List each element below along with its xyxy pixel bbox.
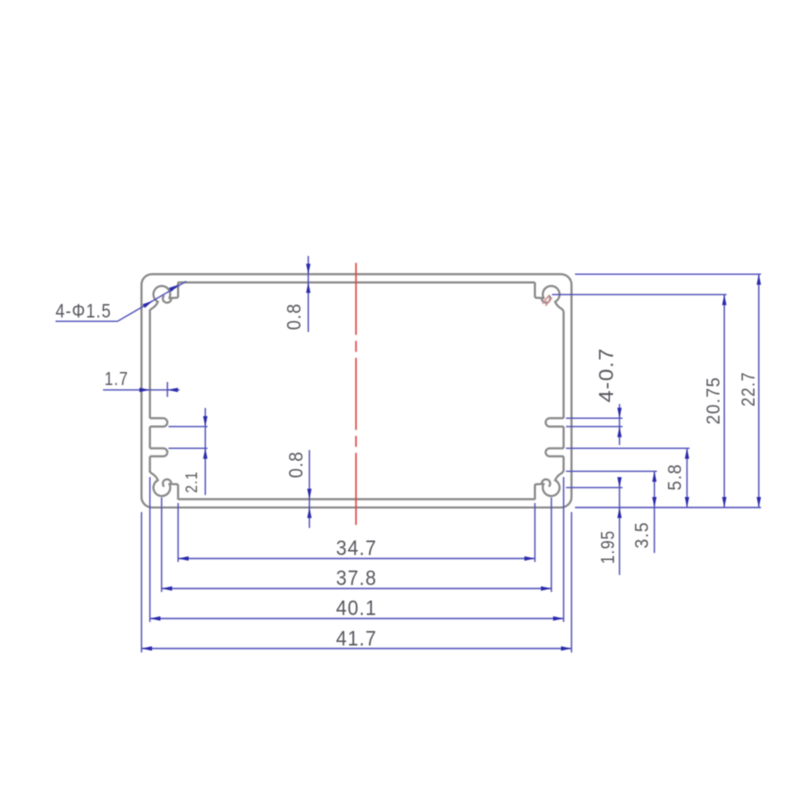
dimension 41.7 label — [336, 628, 377, 651]
svg-text:1.95: 1.95 — [598, 530, 618, 564]
dimension 1.95 label — [598, 530, 618, 564]
dimension 40.1 label — [336, 597, 377, 620]
dimension 4-0.7 extension lines — [566, 418, 623, 426]
dimension 0.8 bottom label — [287, 451, 308, 478]
extension lines below right side — [535, 477, 572, 653]
bottom-left screw boss — [149, 471, 178, 500]
svg-text:0.8: 0.8 — [287, 451, 308, 478]
dimension 5.8 extension line — [566, 447, 690, 449]
svg-text:3.5: 3.5 — [632, 522, 652, 549]
leader 4-Φ1.5 label — [56, 302, 112, 323]
right PCB rail 2 — [546, 448, 564, 456]
left PCB rail 1 — [150, 418, 167, 426]
bottom-right screw boss — [535, 471, 564, 500]
top-left screw boss — [149, 282, 178, 311]
dimension 41.7 arrows — [142, 646, 572, 650]
dimension 5.8 arrows — [685, 448, 689, 507]
svg-text:4-Φ1.5: 4-Φ1.5 — [56, 302, 112, 323]
enclosure outer wall — [142, 274, 572, 507]
dimension 22.7 arrows — [757, 274, 761, 507]
dimension 1.7 line — [103, 389, 180, 391]
leader 4-Φ1.5 arrows — [143, 285, 180, 309]
dimension 3.5 arrows — [652, 471, 656, 507]
svg-text:0.8: 0.8 — [285, 303, 306, 330]
dimension 22.7 line — [758, 274, 760, 507]
dimension 1.7 arrows — [139, 388, 178, 392]
dimension 40.1 line — [150, 618, 564, 620]
svg-text:22.7: 22.7 — [738, 372, 758, 407]
dimension 0.8 top label — [285, 303, 306, 330]
dimension 2.1 extension lines — [169, 427, 208, 449]
dimension 1.95 extension line — [566, 487, 623, 489]
dimension 2.1 line — [204, 408, 206, 495]
dimension 41.7 line — [142, 648, 572, 650]
dimension 2.1 label — [182, 471, 201, 493]
inner bottom wall line — [178, 498, 535, 500]
dimension 1.7 extension — [166, 382, 168, 397]
dimension 0.8 bottom arrows — [307, 489, 311, 518]
svg-text:41.7: 41.7 — [336, 628, 377, 651]
svg-text:2.1: 2.1 — [182, 471, 201, 493]
dimension 37.8 arrows — [162, 586, 552, 590]
dimension 20.75 extension line — [552, 294, 727, 296]
svg-text:40.1: 40.1 — [336, 597, 377, 620]
svg-text:34.7: 34.7 — [336, 537, 377, 560]
dimension 0.8 top line — [307, 256, 309, 332]
right inner wall — [563, 311, 565, 471]
dimension 34.7 arrows — [178, 556, 535, 560]
left PCB rail 2 — [150, 448, 168, 456]
dimension 40.1 arrows — [150, 616, 564, 620]
extension lines below left side — [142, 477, 179, 653]
red vertical centerline — [355, 263, 357, 525]
dimension 22.7 label — [738, 372, 758, 407]
dimension 20.75 arrows — [722, 295, 726, 508]
svg-text:4-0.7: 4-0.7 — [596, 348, 618, 403]
leader 4-Φ1.5 lines — [56, 281, 187, 321]
right PCB rail 1 — [546, 418, 564, 426]
dimension 5.8 line — [686, 448, 688, 507]
svg-text:5.8: 5.8 — [665, 464, 685, 491]
dimension 3.5 line — [653, 471, 655, 553]
dimension 34.7 line — [178, 558, 535, 560]
inner top wall line — [178, 281, 535, 283]
shared bottom extension line — [575, 507, 761, 509]
dimension 34.7 label — [336, 537, 377, 560]
dimension 1.95 line — [619, 478, 621, 575]
dimension 37.8 label — [336, 567, 377, 590]
dimension 20.75 line — [723, 295, 725, 508]
left inner wall — [149, 311, 151, 471]
top-right screw boss — [535, 282, 564, 311]
dimension 0.8 top arrows — [306, 264, 310, 293]
dimension 20.75 label — [703, 377, 723, 425]
dimension 2.1 arrows — [203, 416, 207, 459]
svg-text:20.75: 20.75 — [703, 377, 723, 425]
dimension 5.8 label — [665, 464, 685, 491]
svg-text:1.7: 1.7 — [105, 369, 129, 389]
dimension 1.95 arrows — [617, 477, 621, 518]
dimension 3.5 label — [632, 522, 652, 549]
dimension 1.7 label — [105, 369, 129, 389]
dimension 4-0.7 arrows — [617, 408, 621, 437]
dimension 0.8 bottom line — [308, 450, 310, 528]
dimension 4-0.7 line — [619, 404, 621, 445]
svg-text:37.8: 37.8 — [336, 567, 377, 590]
dimension 3.5 extension line — [566, 470, 657, 472]
dimension 22.7 extension line — [575, 273, 761, 275]
thread hatch marks — [543, 295, 552, 305]
dimension 37.8 line — [162, 588, 552, 590]
dimension 4-0.7 label — [596, 348, 618, 403]
